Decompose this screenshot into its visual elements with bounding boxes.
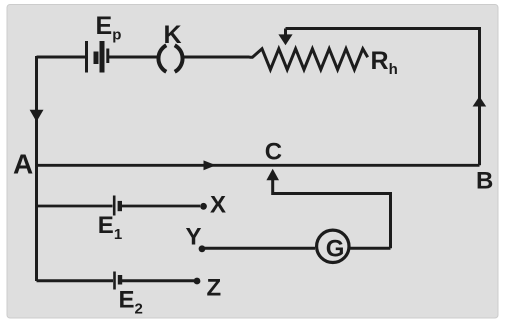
svg-text:A: A (13, 149, 33, 180)
node X terminal dot (200, 203, 207, 210)
svg-text:Z: Z (207, 275, 222, 302)
svg-text:X: X (210, 192, 226, 219)
rheostat wiper arrow (278, 29, 292, 46)
rheostat Rh zigzag (250, 49, 368, 70)
galvanometer G (317, 230, 349, 262)
svg-text:Y: Y (186, 224, 202, 251)
current arrow up on right wire (473, 96, 487, 106)
svg-text:C: C (265, 139, 282, 166)
svg-text:B: B (476, 168, 493, 195)
wire right vertical (to B) (478, 27, 481, 165)
wire E2 branch (37, 279, 195, 282)
battery E1 (114, 196, 120, 216)
wire top (EP to key) (37, 56, 250, 59)
wire galvanometer to loop (350, 247, 391, 250)
node Z terminal dot (194, 278, 201, 285)
wire wiper top run (286, 27, 480, 30)
jockey arrow at C (266, 169, 279, 181)
wire Y to galvanometer (204, 247, 315, 250)
current arrow right on AB wire (204, 160, 217, 170)
svg-text:K: K (164, 21, 182, 49)
svg-text:G: G (326, 236, 345, 263)
wire E1 branch (37, 205, 201, 208)
wire A to B (37, 164, 480, 167)
node Y terminal dot (199, 245, 206, 252)
wire jockey to galvanometer loop (273, 179, 391, 248)
current arrow down on left wire (30, 110, 44, 122)
battery E2 (115, 272, 121, 290)
key K (open plug key symbol) (158, 45, 182, 72)
wire left vertical (A branch) (35, 56, 38, 281)
battery EP (87, 41, 108, 73)
